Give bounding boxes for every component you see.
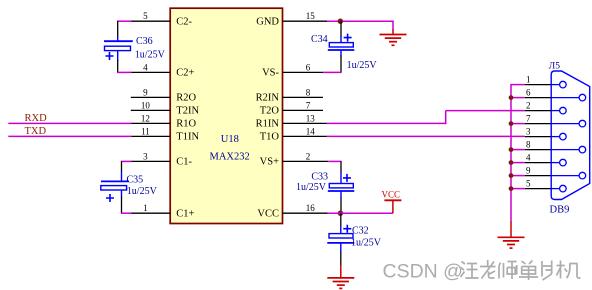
- C32 designator: [352, 226, 369, 237]
- wire RXD to pin12: [8, 122, 131, 124]
- svg-text:1u/25V: 1u/25V: [127, 186, 158, 197]
- svg-text:9: 9: [526, 166, 531, 176]
- pin 9 R2O: [131, 87, 197, 103]
- C35 value 1u/25V: [127, 186, 158, 197]
- svg-text:3: 3: [143, 151, 148, 161]
- svg-text:16: 16: [306, 203, 316, 213]
- svg-text:3: 3: [526, 127, 531, 137]
- ground (below C32): [327, 265, 354, 288]
- svg-text:1u/25V: 1u/25V: [296, 182, 327, 193]
- wire pin13 to DB9 pin2 with jog: [327, 111, 525, 125]
- svg-text:2: 2: [526, 101, 531, 111]
- svg-text:VCC: VCC: [257, 208, 279, 219]
- svg-text:C2-: C2-: [176, 16, 192, 27]
- capacitor C32: [327, 225, 354, 253]
- ground (top right): [380, 30, 407, 46]
- DB9 pin 7: [525, 114, 586, 127]
- svg-text:1u/25V: 1u/25V: [135, 50, 166, 61]
- watermark CSDN: [383, 261, 463, 283]
- svg-text:CSDN @: CSDN @: [383, 261, 463, 283]
- svg-text:C1+: C1+: [176, 208, 194, 219]
- svg-text:VS+: VS+: [260, 157, 279, 168]
- pin 12 R1O: [131, 113, 197, 129]
- pin 7 T2O: [260, 100, 323, 116]
- svg-text:MAX232: MAX232: [210, 152, 250, 163]
- svg-text:15: 15: [306, 11, 316, 21]
- C36 designator: [136, 36, 153, 47]
- svg-text:6: 6: [306, 62, 311, 72]
- capacitor C34: [328, 34, 355, 57]
- svg-text:1u/25V: 1u/25V: [347, 60, 378, 71]
- svg-text:8: 8: [306, 87, 311, 97]
- DB9 pin 2: [525, 101, 566, 114]
- svg-text:R1IN: R1IN: [256, 119, 280, 130]
- svg-text:13: 13: [306, 113, 316, 123]
- svg-text:GND: GND: [256, 16, 279, 27]
- DB9 pin 4: [525, 153, 566, 166]
- svg-text:4: 4: [143, 62, 148, 72]
- pin 14 T1O: [260, 126, 327, 142]
- svg-text:10: 10: [141, 100, 151, 110]
- junction at pin16: [338, 211, 343, 216]
- svg-text:C33: C33: [311, 172, 328, 183]
- net label RXD: [25, 113, 48, 124]
- pin 8 R2IN: [256, 87, 323, 103]
- C32 value 1u/25V: [351, 238, 382, 249]
- wire pin5 to C36 top: [117, 21, 132, 37]
- svg-text:11: 11: [141, 126, 150, 136]
- svg-text:R2O: R2O: [176, 93, 196, 104]
- capacitor C36: [104, 36, 133, 61]
- net label TXD: [25, 126, 47, 137]
- wire C33 bottom to pin16 junction: [340, 198, 342, 214]
- DB9 ground bus wire: [510, 85, 525, 223]
- svg-text:14: 14: [306, 126, 316, 136]
- svg-text:VCC: VCC: [382, 189, 401, 199]
- DB9 pin 3: [525, 127, 566, 140]
- pin 16 VCC: [257, 203, 327, 219]
- svg-text:9: 9: [143, 87, 148, 97]
- C36 value 1u/25V: [135, 50, 166, 61]
- wire C32 bottom to ground: [340, 252, 342, 266]
- svg-text:R2IN: R2IN: [256, 93, 280, 104]
- C33 designator: [311, 172, 328, 183]
- wire junction to VCC: [328, 212, 393, 214]
- svg-text:Л5: Л5: [549, 62, 560, 72]
- DB9 pin 8: [525, 140, 586, 153]
- junction DB9 pin9: [509, 173, 514, 178]
- connector Л5 DB9 body: [551, 71, 590, 200]
- svg-text:RXD: RXD: [25, 113, 48, 124]
- wire pin14 to DB9 pin3: [327, 135, 525, 137]
- svg-text:T1O: T1O: [260, 132, 280, 143]
- svg-text:8: 8: [526, 140, 531, 150]
- svg-text:1: 1: [143, 203, 148, 213]
- wire pin3 to C35 top: [121, 161, 132, 172]
- wire C36 bottom to pin4: [117, 60, 132, 72]
- svg-text:C34: C34: [311, 34, 328, 45]
- svg-text:T2O: T2O: [260, 106, 280, 117]
- svg-text:2: 2: [306, 151, 311, 161]
- pin 3 C1-: [131, 151, 193, 167]
- junction DB9 pin4: [509, 160, 514, 165]
- MAX232 value label: [210, 152, 250, 163]
- pin 1 C1+: [131, 203, 195, 219]
- svg-text:C35: C35: [127, 175, 144, 186]
- svg-text:5: 5: [143, 11, 148, 21]
- junction DB9 pin5: [509, 186, 514, 191]
- ground (below DB9): [498, 222, 525, 248]
- svg-text:T1IN: T1IN: [176, 132, 199, 143]
- DB9 pin 5: [525, 179, 566, 192]
- junction at pin15/C34: [338, 19, 343, 24]
- DB9 pin 6: [525, 88, 586, 101]
- capacitor C33: [328, 172, 355, 198]
- svg-text:C32: C32: [352, 226, 369, 237]
- wire C35 bottom to pin1: [121, 197, 132, 213]
- svg-text:C1-: C1-: [176, 157, 192, 168]
- wire pin2 to C33 top: [328, 161, 342, 172]
- pin 2 VS+: [260, 151, 328, 167]
- svg-text:1: 1: [526, 75, 531, 85]
- wire pin15 to junction and ground: [327, 21, 394, 30]
- wire TXD to pin11: [8, 135, 131, 137]
- U18 designator: [221, 134, 239, 145]
- svg-text:C36: C36: [136, 36, 153, 47]
- pin 13 R1IN: [256, 113, 327, 129]
- svg-text:7: 7: [306, 100, 311, 110]
- svg-text:12: 12: [141, 113, 150, 123]
- svg-text:T2IN: T2IN: [176, 106, 199, 117]
- pin 6 VS-: [262, 62, 323, 78]
- pin 15 GND: [256, 11, 327, 27]
- pin 10 T2IN: [131, 100, 200, 116]
- C34 value 1u/25V: [347, 60, 378, 71]
- wire C34 bottom to pin6: [323, 56, 342, 73]
- DB9 pin 1: [525, 75, 566, 88]
- watermark hanzi (drawn strokes): [461, 260, 581, 280]
- junction DB9 pin8: [509, 147, 514, 152]
- svg-text:DB9: DB9: [550, 205, 570, 216]
- pin 5 C2-: [131, 11, 193, 27]
- C34 designator: [311, 34, 328, 45]
- svg-text:6: 6: [526, 88, 531, 98]
- C33 value 1u/25V: [296, 182, 327, 193]
- junction DB9 pin7: [509, 121, 514, 126]
- svg-text:VS-: VS-: [262, 68, 279, 79]
- svg-text:TXD: TXD: [25, 126, 47, 137]
- Л5 designator: [549, 62, 560, 72]
- wire junction to C34: [340, 21, 342, 37]
- power port VCC: [382, 189, 402, 213]
- IC U18 MAX232 body: [170, 8, 282, 223]
- wire junction to C32: [340, 213, 342, 226]
- svg-text:7: 7: [526, 114, 531, 124]
- svg-text:1u/25V: 1u/25V: [351, 238, 382, 249]
- pin 11 T1IN: [131, 126, 200, 142]
- svg-text:C2+: C2+: [176, 68, 194, 79]
- svg-text:4: 4: [526, 153, 531, 163]
- svg-text:5: 5: [526, 179, 531, 189]
- pin 4 C2+: [131, 62, 195, 78]
- DB9 label: [550, 205, 570, 216]
- DB9 pin 9: [525, 166, 586, 179]
- C35 designator: [127, 175, 144, 186]
- svg-text:R1O: R1O: [176, 119, 196, 130]
- capacitor C35: [101, 172, 129, 203]
- svg-text:U18: U18: [221, 134, 239, 145]
- junction DB9 pin6: [509, 95, 514, 100]
